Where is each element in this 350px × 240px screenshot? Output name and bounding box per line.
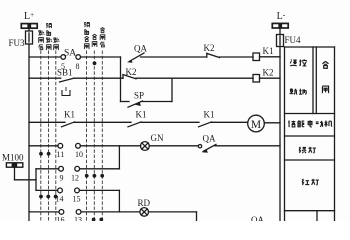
contact K1 (motor row, second) [128,122,141,127]
contact K1 (motor row, third) [199,122,212,127]
svg-text:GN: GN [151,133,164,143]
function table row line 3 [285,159,335,161]
SA position line 1 (dashed) [40,51,42,221]
svg-text:8: 8 [76,62,80,71]
table text 遥控 [290,59,306,66]
SA position line 4 (dashed) [86,51,88,221]
wire row2 right (K2 contact to K2 coil) [136,77,253,79]
wire row1 right (QA to K2) [141,56,207,58]
SA header column 5: 合闸 [92,34,97,47]
table text 就地 [290,88,306,94]
contact K1 (motor row, first) [62,122,75,127]
function table frame [285,47,335,221]
SA contact terminal 13 [76,210,81,215]
SA position line 3 (dashed) [55,51,57,221]
svg-text:K2: K2 [204,43,215,53]
wire motor row segment 2 [75,121,132,123]
terminal M100 [6,163,36,180]
wire SP row right [143,101,173,103]
svg-text:K2: K2 [263,68,274,78]
svg-text:11: 11 [57,150,65,159]
wire red-lamp row middle [81,211,140,213]
SA closed-position dots row 9-12 [85,174,104,178]
wire row 9-12 riser to green-lamp row [118,146,120,169]
svg-text:5: 5 [61,62,65,71]
wire row 9-12 right [80,168,120,170]
svg-text:QA: QA [251,215,264,221]
svg-text:QA: QA [134,44,147,54]
wire M100 rail vertical [35,169,37,191]
lamp RD (red) [140,208,149,217]
contact K2 row1 [207,53,220,57]
table text 绿灯 [299,147,316,153]
table text 合闸 vertical [322,61,328,93]
bus terminal L- [272,23,288,34]
svg-text:SA: SA [64,49,76,59]
pushbutton SB1 [60,78,74,95]
svg-text:K1: K1 [64,110,75,120]
SA header column 6: 合闸后 [100,27,105,46]
svg-text:9: 9 [60,174,64,183]
svg-text:M100: M100 [2,153,24,163]
svg-text:K1: K1 [263,46,274,56]
svg-text:K1: K1 [136,110,147,120]
SA header column 3: 跳闸 [53,38,59,50]
relay coil K2 [253,75,260,83]
limit switch SP [128,101,143,107]
SA closed-position dots row 11-10 [39,152,50,156]
fuse FU3 [26,31,33,44]
contact QA row1 [127,53,144,63]
wire row2 left (bus to SB1) [29,77,61,79]
wire SP branch vertical to row2 [171,78,173,101]
SA header column 4: 预备合闸 [84,22,90,49]
table text 红灯 [302,179,319,185]
wire row1 middle (contact 8 to QA) [81,56,121,58]
svg-text:K1: K1 [204,110,215,120]
wire motor to L- bus [264,122,280,124]
SA contact terminal 8 [76,55,81,60]
wire K2 coil to L- bus [260,77,281,79]
svg-text:SP: SP [134,91,144,101]
wire row1 to K1 coil [220,56,254,58]
table text 储能电动机 [288,120,332,127]
wire motor row segment 3 [141,121,199,123]
SA closed-position dots row 16-13 [92,218,104,222]
wire green-lamp row left (bus to SA contact 11) [29,145,58,147]
wire row 14-15 drop to red-lamp row [118,190,120,212]
contact K2 row2 [123,75,136,79]
SA contact terminal 12 [75,166,80,171]
function table row line 2 [285,135,335,137]
wire motor row left (bus to K1 first) [29,121,65,123]
wire row 9-12 left [36,168,59,170]
SA contact terminal 15 [75,188,80,193]
function table divider (remote/local | close) double line [313,47,316,114]
wire to motor [212,121,248,123]
function table bottom cell divider [316,211,318,221]
wire SP row left [121,101,130,103]
contact QA (green-lamp row) [198,144,216,152]
svg-text:10: 10 [75,150,83,159]
bus L- (right vertical supply bus) [279,47,281,222]
SA header column 1: 跳闸后 [38,30,44,49]
svg-text:15: 15 [73,195,81,204]
svg-text:16: 16 [57,216,65,222]
wire row 14-15 left [36,189,58,191]
svg-text:12: 12 [71,174,79,183]
wire node A vertical (row1/row2/SP junction) [120,57,122,102]
bus terminal L+ [21,24,37,32]
svg-text:K2: K2 [126,67,137,77]
bus L+ (left vertical supply bus) [28,44,30,221]
wire lamp RD to corner [149,211,197,213]
wire K1 coil to L- bus [260,56,281,58]
wire QA to L- bus (green-lamp row) [215,145,280,147]
lamp GN (green) [141,142,150,151]
SA contact terminal 10 [76,143,81,148]
wire row 14-15 right [79,189,119,191]
SA contact terminal 11 [58,143,63,148]
motor M (energy-storage motor) [248,115,265,132]
svg-text:14: 14 [56,195,64,204]
SA contact terminal 9 [59,166,64,171]
wire red-lamp row drop (cut off at edge) [196,212,198,221]
SA contact terminal 14 [58,188,63,193]
svg-text:13: 13 [74,216,82,222]
wire green-lamp row middle [80,145,140,147]
function table row line 4 [285,210,335,212]
wire red-lamp row left (bus to SA contact 16) [29,211,59,213]
svg-text:M: M [251,119,261,131]
wire lamp GN to QA [149,145,198,147]
wire row2 middle (SB1 to K2 contact) [74,77,124,79]
function table row line 1 [285,113,335,115]
SA contact terminal 5 [61,55,66,60]
wire row1 left (bus to SA contact 5) [29,56,61,58]
fuse FU4 [277,35,284,47]
SA position line 6 (dashed) [101,51,103,221]
SA closed-position dots row 14-15 [39,195,57,199]
SA closed-position dot row1 [93,61,97,65]
svg-text:FU4: FU4 [285,35,302,45]
svg-text:QA: QA [203,134,216,144]
svg-text:RD: RD [138,198,151,208]
SA position line 5 (dashed) [93,51,95,221]
svg-text:FU3: FU3 [8,38,25,48]
SA position line 2 (dashed) [48,51,50,221]
SA header column 2: 预备跳闸 [46,23,52,50]
relay coil K1 [253,53,260,61]
SA contact terminal 16 [59,210,64,215]
